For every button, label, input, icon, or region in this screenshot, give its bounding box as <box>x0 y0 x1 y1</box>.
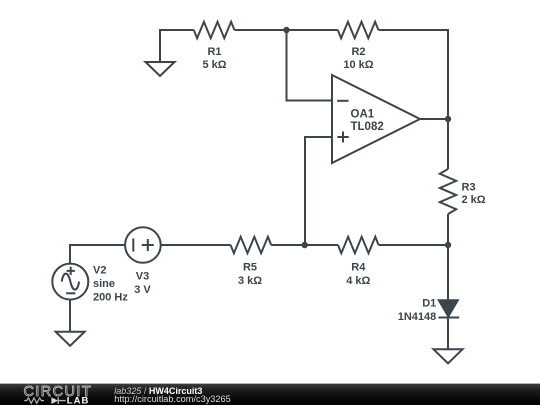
svg-text:10 kΩ: 10 kΩ <box>343 59 373 71</box>
svg-text:V2: V2 <box>93 265 106 277</box>
svg-text:LAB: LAB <box>67 395 90 405</box>
svg-text:D1: D1 <box>422 297 436 309</box>
node junction noninverting <box>302 242 308 248</box>
wire output to R3 <box>447 119 449 169</box>
voltage source V2 circle <box>52 264 88 300</box>
V3 plus <box>142 239 154 251</box>
svg-text:R5: R5 <box>243 262 257 274</box>
V2 plus <box>67 267 75 275</box>
svg-text:OA1: OA1 <box>351 109 375 121</box>
svg-text:3 V: 3 V <box>134 284 151 296</box>
wire diode to ground <box>447 318 449 350</box>
logo resistor zigzag <box>24 398 44 403</box>
op-amp U1 triangle <box>332 75 420 163</box>
wire op-amp output <box>420 118 448 120</box>
diode D1 cathode bar <box>438 317 459 319</box>
V2 sine <box>62 274 79 290</box>
V2 minus <box>66 292 75 294</box>
V3 bar <box>132 238 134 251</box>
footer bar <box>0 384 540 405</box>
wire R2-to-right-rail <box>379 30 448 119</box>
svg-text:2 kΩ: 2 kΩ <box>462 194 486 206</box>
svg-text:V3: V3 <box>136 270 149 282</box>
op-amp plus sign <box>337 132 348 143</box>
node junction output <box>445 116 451 122</box>
ground under D1 <box>434 349 463 363</box>
resistor R2 <box>338 22 379 38</box>
svg-text:R3: R3 <box>462 181 476 193</box>
resistor R5 <box>231 237 272 253</box>
svg-text:200 Hz: 200 Hz <box>93 291 128 303</box>
wire R3 to mid rail <box>447 214 449 245</box>
svg-text:http://circuitlab.com/c3y3265: http://circuitlab.com/c3y3265 <box>114 394 230 404</box>
svg-text:5 kΩ: 5 kΩ <box>202 59 226 71</box>
wire node-A to inverting input <box>287 30 333 101</box>
wire V3 to R5 <box>161 244 231 246</box>
resistor R4 <box>338 237 379 253</box>
logo diode <box>51 397 58 404</box>
svg-text:sine: sine <box>93 278 115 290</box>
svg-text:3 kΩ: 3 kΩ <box>238 275 262 287</box>
wire V3-left to V2-top <box>70 245 125 264</box>
svg-text:4 kΩ: 4 kΩ <box>346 275 370 287</box>
svg-text:R1: R1 <box>207 46 221 58</box>
svg-text:R4: R4 <box>351 262 366 274</box>
diode D1 <box>439 300 458 316</box>
node junction R1/R2 <box>283 27 289 33</box>
node junction R4/R3/D1 <box>445 242 451 248</box>
svg-text:R2: R2 <box>351 46 365 58</box>
svg-text:1N4148: 1N4148 <box>398 311 437 323</box>
svg-text:TL082: TL082 <box>351 121 384 133</box>
resistor R3 <box>440 169 456 214</box>
wire V2 to ground <box>69 300 71 332</box>
wire R5-to-R4 <box>271 244 338 246</box>
resistor R1 <box>194 22 235 38</box>
wire R4 to right rail <box>379 244 448 246</box>
wire noninverting input down <box>305 137 332 245</box>
wire mid rail to diode <box>447 245 449 300</box>
ground under V2 <box>56 332 85 346</box>
ground left of R1 <box>146 62 175 76</box>
voltage source V3 circle <box>125 227 161 263</box>
op-amp minus sign <box>337 100 348 102</box>
wire ground-to-R1 <box>160 30 194 62</box>
wire R1-to-R2 <box>235 29 338 31</box>
